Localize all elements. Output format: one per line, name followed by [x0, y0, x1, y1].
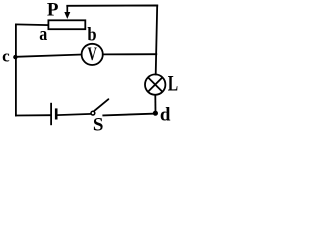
wire: voltmeter to right vertical — [103, 53, 157, 55]
wire: top horizontal (top-right corner to slider arrow) — [67, 5, 157, 7]
wire: left vertical (top-left corner down to bottom-left corner) — [15, 24, 17, 115]
label S — [93, 114, 104, 135]
voltmeter U1 body — [82, 44, 103, 65]
label b — [87, 25, 96, 46]
wire: lamp up to top-right corner — [156, 6, 158, 75]
battery cell: long positive plate — [50, 103, 52, 125]
wire: switch contact to node d — [103, 114, 155, 116]
node c (junction dot) — [13, 55, 17, 59]
svg-text:L: L — [168, 70, 178, 95]
label d — [160, 104, 171, 125]
label P — [47, 0, 59, 21]
potentiometer slider arrow — [64, 6, 70, 19]
svg-text:c: c — [2, 46, 10, 65]
voltmeter label V — [88, 45, 98, 65]
svg-text:P: P — [47, 0, 59, 21]
node d (junction dot) — [153, 111, 158, 116]
switch S lever (open) — [94, 99, 108, 111]
lamp L body — [145, 74, 165, 94]
wire: rheostat terminal a to top-left corner — [16, 23, 49, 26]
battery cell: short negative plate — [55, 108, 58, 119]
potentiometer P resistive body — [48, 20, 85, 29]
label c — [2, 46, 10, 65]
wire: node d up to lamp — [154, 95, 156, 113]
wire: bottom-left corner to battery — [16, 114, 50, 116]
wire: node c to voltmeter — [16, 55, 81, 57]
label a — [39, 24, 47, 45]
switch S pivot — [91, 111, 95, 115]
svg-text:S: S — [93, 114, 104, 134]
wire: battery to switch — [57, 114, 91, 115]
svg-text:V: V — [88, 45, 98, 65]
label L — [168, 70, 178, 95]
svg-text:a: a — [39, 24, 47, 45]
svg-text:b: b — [87, 25, 96, 46]
svg-text:d: d — [160, 104, 171, 125]
